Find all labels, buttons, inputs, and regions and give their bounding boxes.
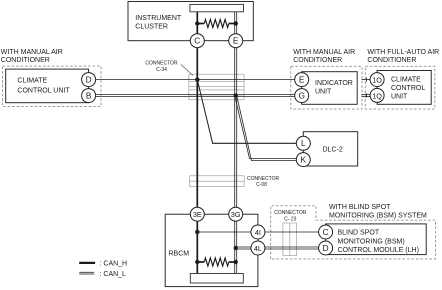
svg-text:L: L: [301, 138, 306, 148]
wire CAN_L row B to G: [96, 94, 295, 96]
pin B climate control unit: [82, 89, 96, 103]
climate control unit box (full-auto A/C): [377, 71, 431, 105]
svg-text:CONNECTOR: CONNECTOR: [274, 210, 307, 216]
resistor in RBCM: [197, 261, 204, 263]
svg-text:B: B: [86, 91, 92, 101]
junction dot top resistor right: [234, 21, 238, 25]
wire CAN_H branch to DLC-2 L: [197, 80, 296, 144]
svg-text:INSTRUMENT: INSTRUMENT: [135, 15, 182, 22]
pin 3E RBCM: [190, 207, 204, 221]
wire CAN_H row to 4I and BSM C: [197, 231, 251, 233]
label INDICATOR UNIT: [315, 80, 353, 96]
svg-text:RBCM: RBCM: [169, 251, 190, 258]
label CLIMATE CONTROL UNIT (manual): [17, 78, 70, 95]
label CLIMATE CONTROL UNIT (full-auto): [391, 76, 425, 100]
svg-text:C: C: [323, 227, 329, 237]
climate control unit box (manual A/C): [6, 69, 89, 103]
svg-text:3G: 3G: [231, 210, 241, 219]
label WITH MANUAL AIR CONDITIONER (indicator): [293, 49, 355, 64]
label WITH BLIND SPOT MONITORING (BSM) SYSTEM: [329, 204, 427, 219]
connector C-34: [189, 74, 244, 99]
svg-text:CLIMATE: CLIMATE: [17, 78, 47, 85]
svg-text:CLIMATE: CLIMATE: [391, 76, 421, 83]
label CONNECTOR C-34: [145, 61, 178, 74]
RBCM box: [165, 214, 258, 286]
label CONNECTOR C-08: [247, 176, 280, 188]
instrument cluster box: [128, 2, 253, 41]
svg-text:C- 23: C- 23: [284, 217, 296, 223]
svg-text:CONDITIONER: CONDITIONER: [1, 57, 50, 64]
svg-text:WITH MANUAL AIR: WITH MANUAL AIR: [1, 49, 63, 56]
DLC-2 box: [303, 132, 357, 166]
pin E instrument cluster: [229, 34, 243, 48]
svg-text:INDICATOR: INDICATOR: [315, 80, 353, 87]
pin 4I RBCM: [251, 225, 265, 239]
svg-text:DLC-2: DLC-2: [323, 147, 343, 154]
svg-text:K: K: [301, 155, 307, 165]
pin L DLC-2: [296, 136, 310, 150]
connector C-23: [283, 223, 297, 256]
svg-text:C-08: C-08: [256, 182, 267, 188]
svg-text:C: C: [194, 36, 200, 46]
label WITH FULL-AUTO AIR CONDITIONER: [367, 49, 439, 64]
wire stub to 1O with inline connector tick: [362, 79, 371, 81]
junction dot C-34 CAN_L: [234, 93, 238, 97]
resistor in instrument cluster: [197, 23, 204, 25]
junction dot RBCM resistor left: [195, 260, 199, 264]
svg-text:G: G: [298, 91, 304, 101]
svg-text:3E: 3E: [193, 210, 202, 219]
wire CAN_L branch to DLC-2 K: [235, 96, 297, 159]
wire CAN_H row D to E: [96, 79, 295, 81]
junction dot C-34 CAN_H: [195, 77, 199, 81]
instrument cluster internal bar: [190, 4, 244, 11]
svg-text:UNIT: UNIT: [315, 89, 332, 96]
svg-text:C-34: C-34: [156, 67, 167, 73]
svg-text:4L: 4L: [254, 244, 262, 253]
leader line C-34: [181, 65, 193, 76]
svg-text:CONNECTOR: CONNECTOR: [145, 61, 178, 67]
svg-text:D: D: [86, 75, 92, 85]
svg-text:: CAN_L: : CAN_L: [100, 271, 127, 278]
blind spot monitoring (BSM) control module box: [326, 224, 427, 255]
dashed box: with blind spot monitoring (BSM) system: [271, 206, 436, 259]
svg-text:: CAN_H: : CAN_H: [100, 260, 128, 267]
svg-text:MONITORING (BSM) SYSTEM: MONITORING (BSM) SYSTEM: [329, 213, 427, 220]
svg-text:E: E: [299, 75, 305, 85]
svg-text:E: E: [233, 36, 239, 46]
legend CAN_H sample line: [79, 262, 95, 264]
junction dot RBCM CAN_H 4I: [195, 230, 199, 234]
wire CAN_L row to 4L and BSM D: [236, 246, 251, 248]
svg-text:CONDITIONER: CONDITIONER: [367, 57, 416, 64]
pin 3G RBCM: [229, 207, 243, 221]
pin 1Q full-auto climate control unit: [370, 88, 384, 102]
pin 4L RBCM: [251, 241, 265, 255]
svg-text:CONDITIONER: CONDITIONER: [293, 57, 342, 64]
pin 1O full-auto climate control unit: [370, 73, 384, 87]
wire stub to 1Q with inline connector tick: [362, 93, 371, 95]
pin E indicator unit: [295, 73, 309, 87]
svg-text:4I: 4I: [255, 228, 261, 237]
svg-text:1O: 1O: [372, 76, 382, 85]
svg-text:MONITORING (BSM): MONITORING (BSM): [338, 238, 405, 245]
svg-text:WITH BLIND SPOT: WITH BLIND SPOT: [329, 204, 391, 211]
svg-text:WITH FULL-AUTO AIR: WITH FULL-AUTO AIR: [367, 49, 439, 56]
svg-text:CONTROL UNIT: CONTROL UNIT: [17, 88, 70, 95]
pin K DLC-2: [296, 153, 310, 167]
junction dot RBCM CAN_L 4L: [234, 246, 238, 250]
pin D climate control unit: [82, 73, 96, 87]
RBCM internal bar: [190, 274, 243, 284]
dashed box: with manual air conditioner (indicator unit): [291, 66, 362, 109]
indicator unit box: [302, 72, 358, 105]
label BLIND SPOT MONITORING (BSM) CONTROL MODULE (LH): [338, 229, 419, 254]
legend CAN_L sample line: [79, 271, 94, 273]
pin C instrument cluster: [190, 34, 204, 48]
junction dot top resistor left: [195, 21, 199, 25]
label INSTRUMENT CLUSTER: [135, 15, 182, 31]
wire CAN_H main vertical: [196, 12, 198, 34]
svg-text:CONTROL: CONTROL: [391, 85, 425, 92]
svg-text:CONTROL MODULE (LH): CONTROL MODULE (LH): [338, 247, 419, 254]
svg-text:BLIND SPOT: BLIND SPOT: [338, 229, 380, 236]
svg-text:WITH MANUAL AIR: WITH MANUAL AIR: [293, 49, 355, 56]
svg-text:1Q: 1Q: [372, 91, 382, 100]
label WITH MANUAL AIR CONDITIONER (left): [1, 49, 63, 64]
pin C BSM module: [319, 225, 333, 239]
pin D BSM module: [319, 241, 333, 255]
wire CAN_L main vertical: [234, 12, 236, 34]
junction dot RBCM resistor right: [234, 260, 238, 264]
svg-text:UNIT: UNIT: [391, 93, 408, 100]
svg-text:CLUSTER: CLUSTER: [135, 24, 168, 31]
connector C-08: [190, 176, 245, 187]
dashed box: with manual air conditioner (climate control unit): [3, 66, 102, 106]
dashed box: with full-auto air conditioner: [365, 66, 435, 109]
svg-text:D: D: [323, 243, 329, 253]
label CONNECTOR C-23: [274, 210, 307, 223]
pin G indicator unit: [295, 89, 309, 103]
